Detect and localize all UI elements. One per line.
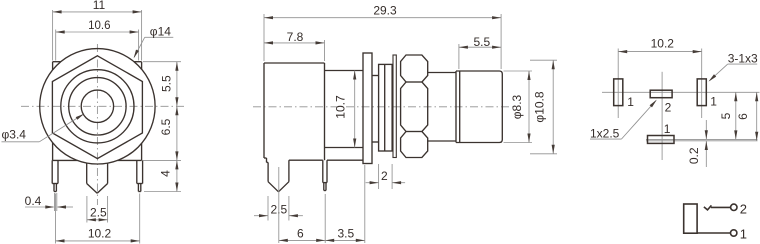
- jack schematic terminal 1: [731, 227, 748, 242]
- jack schematic switch contact: [704, 205, 730, 210]
- pad 2 center: [650, 90, 672, 98]
- label 2 center pad: [665, 101, 672, 115]
- jack schematic body: [684, 204, 697, 233]
- front center pin: [87, 163, 108, 193]
- svg-text:1: 1: [627, 95, 634, 109]
- label 1x2.5: [590, 100, 657, 141]
- svg-text:2: 2: [665, 101, 672, 115]
- dim 5 pcb: [719, 92, 738, 139]
- label φ14: [134, 25, 174, 59]
- svg-text:6: 6: [297, 227, 304, 241]
- side thread: [428, 73, 456, 142]
- svg-text:2: 2: [740, 201, 747, 216]
- pad 1 right: [697, 79, 706, 106]
- side view centerline: [253, 106, 513, 108]
- svg-text:10.6: 10.6: [88, 20, 110, 32]
- front right leg: [137, 160, 143, 191]
- flange bottom-left corner: [53, 143, 78, 161]
- svg-text:7.8: 7.8: [287, 30, 304, 44]
- side barrel: [456, 71, 502, 143]
- label 1 left pad: [627, 95, 634, 109]
- front view centerline horizontal: [21, 105, 186, 107]
- dim 7.8: [264, 30, 325, 61]
- flange top-right corner: [134, 62, 142, 70]
- svg-text:3.5: 3.5: [337, 227, 354, 241]
- ring middle: [69, 78, 126, 135]
- dim 2.5 side: [254, 196, 303, 221]
- svg-text:2: 2: [381, 169, 388, 183]
- side neck: [325, 71, 364, 148]
- svg-text:2.5: 2.5: [90, 206, 107, 220]
- svg-text:3-1x3: 3-1x3: [728, 51, 758, 65]
- side washer: [379, 64, 393, 151]
- svg-text:10.2: 10.2: [88, 226, 112, 240]
- ring outer: [61, 70, 134, 143]
- svg-text:6.5: 6.5: [159, 118, 173, 135]
- dim 5.5 right: [143, 62, 181, 107]
- front left leg: [52, 160, 58, 191]
- front view centerline vertical: [96, 44, 98, 205]
- svg-text:1: 1: [664, 122, 671, 136]
- svg-text:5.5: 5.5: [473, 35, 490, 49]
- dim 0.2: [687, 120, 708, 167]
- side shaft: [372, 76, 379, 143]
- svg-text:10.7: 10.7: [333, 95, 347, 119]
- dim 10.6: [56, 20, 139, 61]
- pcb lower row line 2: [646, 140, 758, 142]
- dim 5.5 top: [459, 35, 501, 69]
- svg-text:11: 11: [93, 0, 106, 12]
- pcb right pad vertical line: [701, 49, 703, 119]
- svg-text:4: 4: [158, 170, 172, 177]
- side hex nut: [401, 55, 428, 158]
- svg-text:5: 5: [719, 112, 733, 119]
- label 3-1x3: [709, 51, 759, 81]
- svg-text:φ10.8: φ10.8: [533, 91, 547, 122]
- pad 1 lower: [648, 136, 675, 144]
- label 1 right pad: [710, 95, 717, 109]
- pcb lower row line: [646, 138, 758, 140]
- svg-text:1: 1: [710, 95, 717, 109]
- hex nut front: [52, 56, 142, 159]
- svg-text:0.4: 0.4: [25, 194, 42, 208]
- dim 11: [53, 0, 142, 60]
- dim 10.7: [333, 71, 356, 148]
- label 1 lower pad: [664, 122, 671, 136]
- jack schematic sleeve line: [697, 232, 730, 234]
- svg-text:φ8.3: φ8.3: [510, 94, 524, 119]
- dim 6.5 right: [143, 106, 181, 160]
- side bottom edge: [289, 159, 363, 161]
- svg-text:0.2: 0.2: [687, 147, 701, 164]
- front outer circle φ14: [40, 49, 155, 164]
- side right leg: [323, 160, 327, 190]
- dim 6 side: [279, 167, 325, 243]
- svg-text:φ14: φ14: [150, 25, 171, 39]
- flange bottom-right corner: [118, 143, 142, 160]
- svg-text:1x2.5: 1x2.5: [590, 126, 620, 140]
- side flange plate: [363, 53, 372, 164]
- label φ3.4: [2, 114, 85, 142]
- svg-text:6: 6: [736, 113, 750, 120]
- side lock washer: [393, 55, 396, 158]
- side pointed pin: [268, 160, 289, 192]
- ring inner φ3.4: [81, 90, 113, 122]
- dim 4 right: [144, 160, 181, 191]
- side body: [264, 63, 325, 162]
- svg-text:5.5: 5.5: [160, 75, 174, 92]
- dim φ10.8: [530, 60, 557, 154]
- pad 1 left: [614, 79, 623, 106]
- dim φ8.3: [504, 71, 533, 143]
- svg-text:10.2: 10.2: [651, 36, 675, 50]
- dim 29.3: [264, 4, 501, 69]
- dim 6 pcb: [736, 92, 758, 141]
- dim 3.5 side: [325, 165, 365, 243]
- dim 2 side: [366, 164, 406, 189]
- dim 10.2 front: [56, 194, 140, 244]
- svg-text:φ3.4: φ3.4: [2, 128, 27, 142]
- dim 0.4: [25, 193, 73, 211]
- jack schematic terminal 2: [731, 201, 747, 216]
- dim 10.2 pcb: [618, 36, 702, 53]
- flange top-left corner: [53, 62, 61, 70]
- pcb left pad vertical line: [617, 49, 619, 119]
- pcb row centerline: [602, 91, 760, 93]
- svg-text:29.3: 29.3: [373, 4, 397, 18]
- pcb center vertical line: [661, 72, 663, 160]
- svg-text:1: 1: [740, 227, 747, 242]
- dim 2.5 front: [87, 196, 108, 223]
